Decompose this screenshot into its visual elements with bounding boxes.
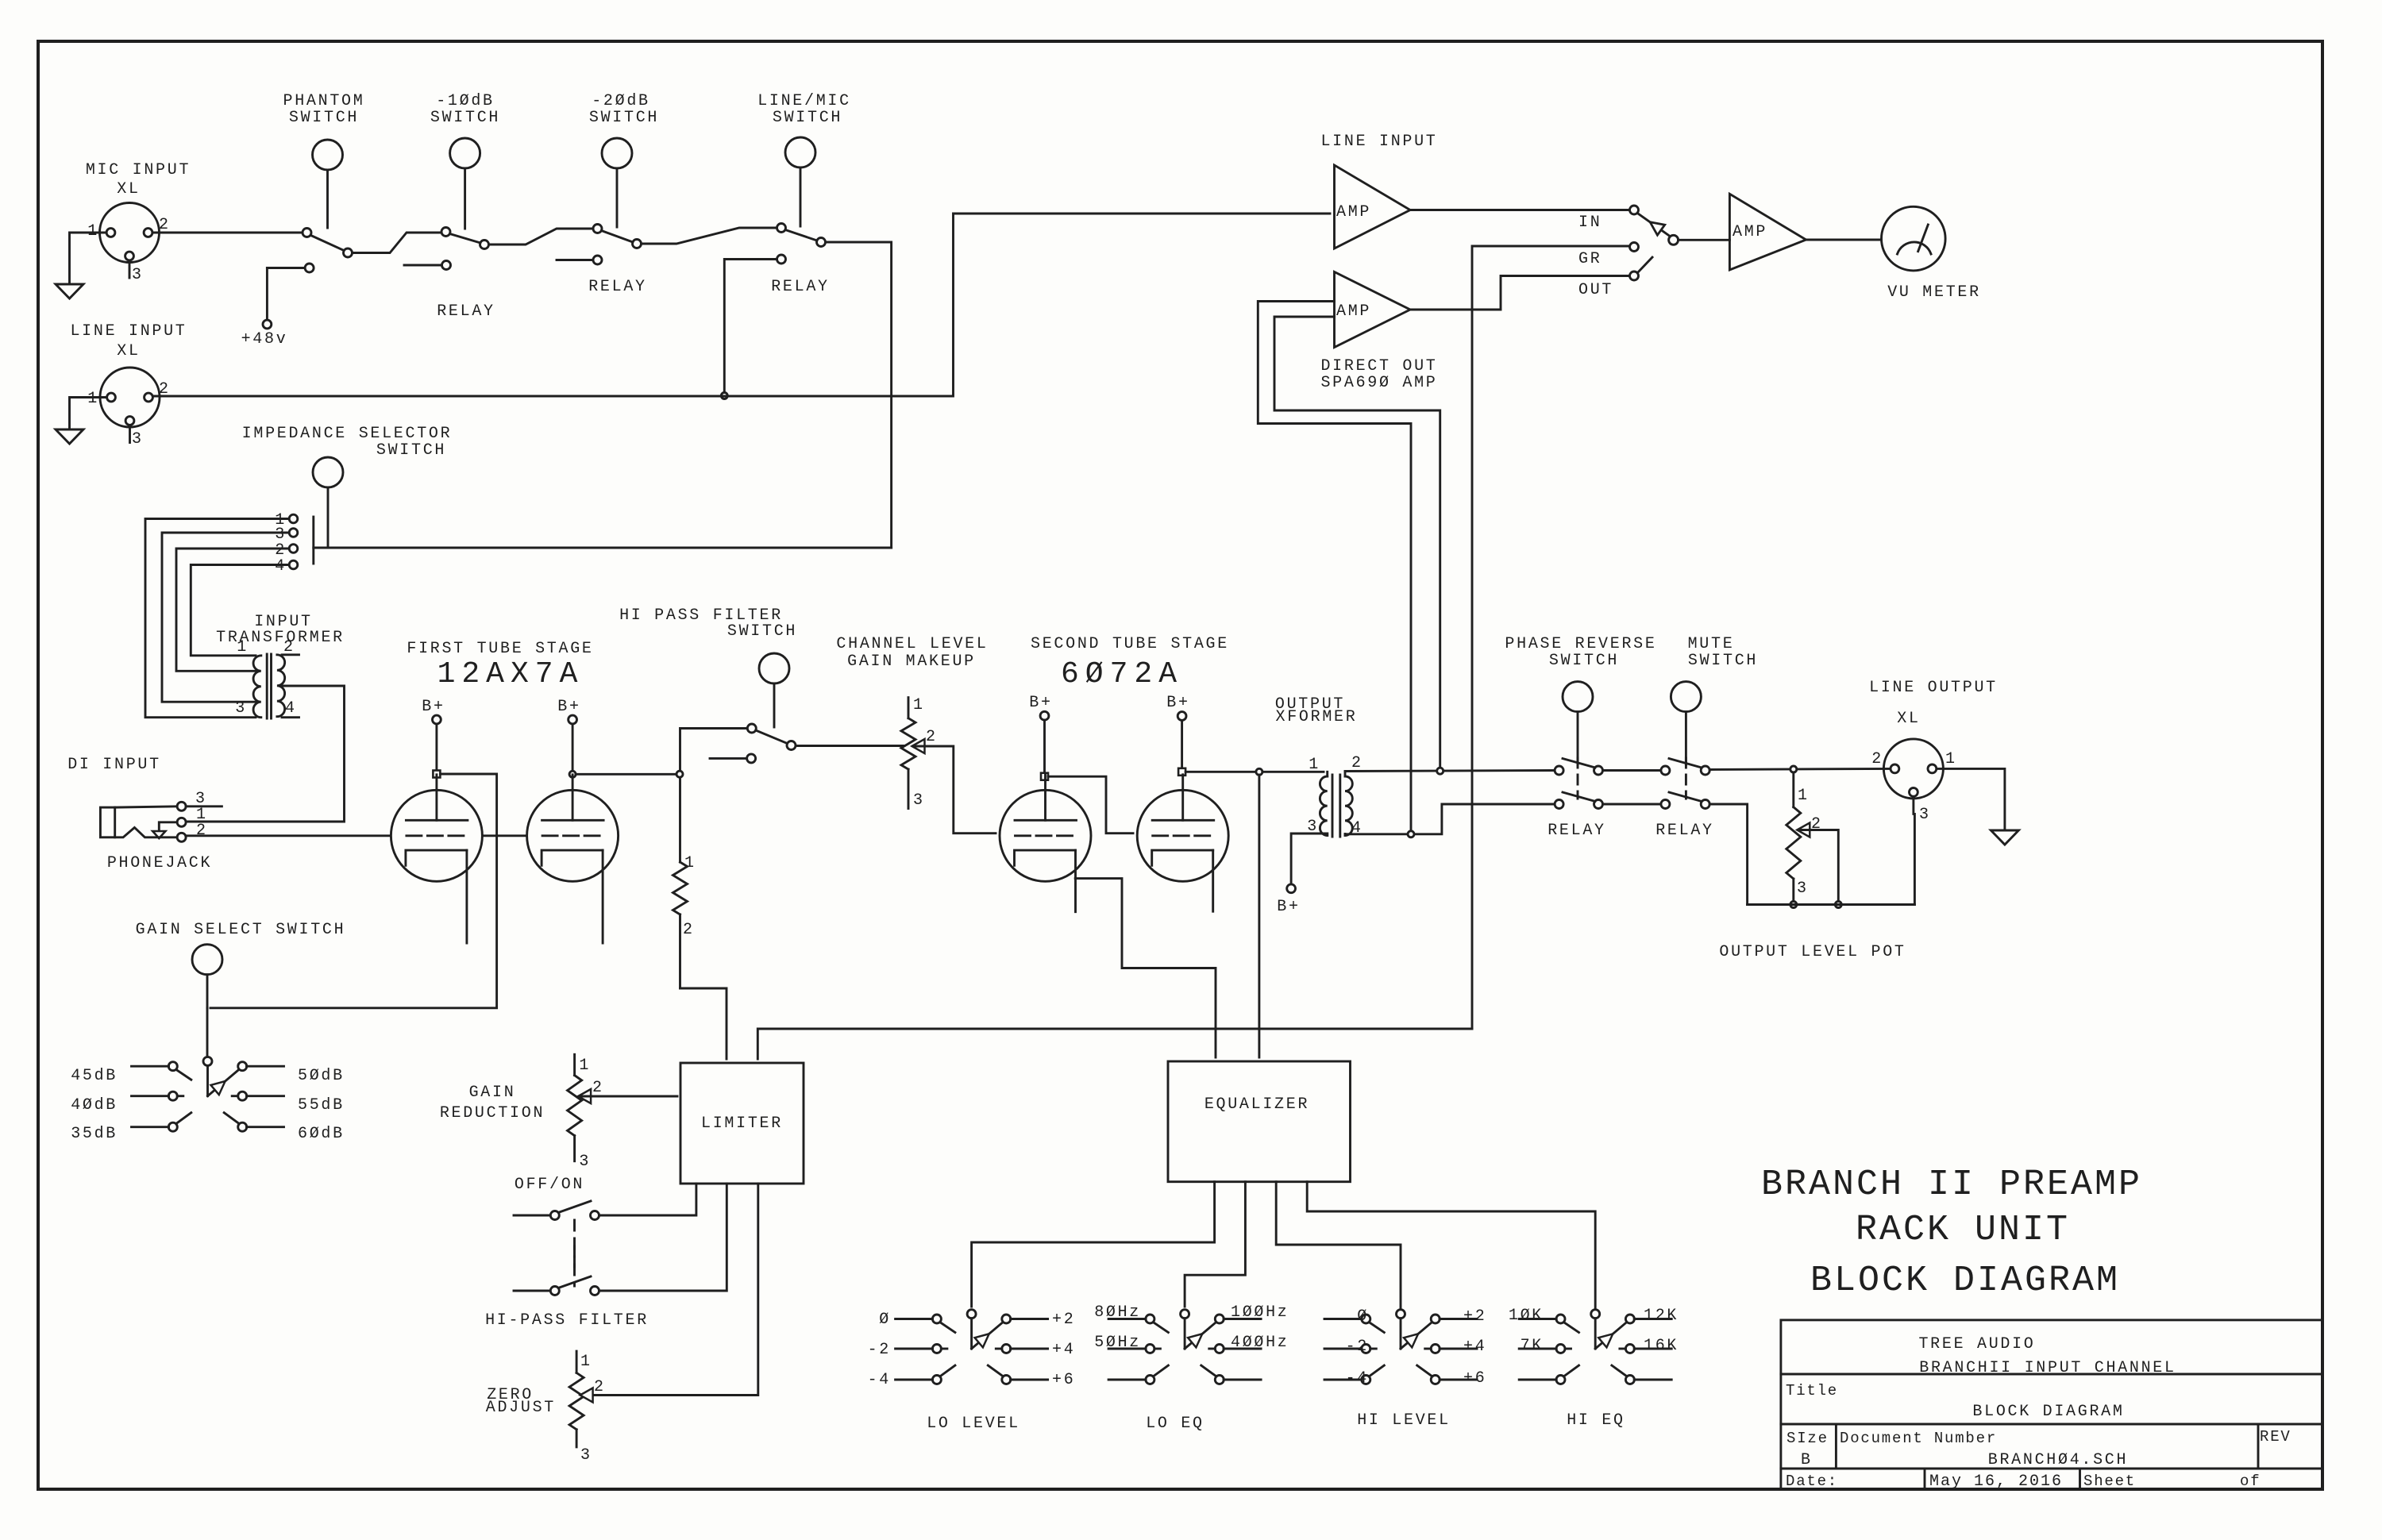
svg-text:VU METER: VU METER xyxy=(1887,283,1981,302)
wire equalizer to LO EQ xyxy=(1185,1182,1245,1307)
switch S5 IMPEDANCE SELECTOR knob xyxy=(313,457,343,487)
svg-text:1: 1 xyxy=(684,854,696,872)
wire tube V3 tap to equalizer xyxy=(1075,879,1216,1057)
svg-text:B+: B+ xyxy=(557,698,580,716)
svg-text:6ØdB: 6ØdB xyxy=(298,1125,345,1143)
svg-text:AMP: AMP xyxy=(1336,203,1371,221)
svg-text:Ø: Ø xyxy=(1357,1307,1369,1326)
wire amp to vu meter xyxy=(1806,239,1882,241)
svg-text:GAIN: GAIN xyxy=(469,1084,516,1102)
title block col date xyxy=(1924,1469,1926,1489)
phase switch bottom pole xyxy=(1555,800,1563,809)
contact +48v feed xyxy=(305,264,314,272)
mute switch link dashes xyxy=(1685,758,1687,799)
svg-text:3: 3 xyxy=(580,1446,592,1465)
svg-text:GAIN MAKEUP: GAIN MAKEUP xyxy=(847,653,976,671)
svg-text:CHANNEL LEVEL: CHANNEL LEVEL xyxy=(836,635,988,653)
svg-text:3: 3 xyxy=(1797,880,1809,898)
title block col sheet xyxy=(2079,1469,2081,1489)
svg-text:REDUCTION: REDUCTION xyxy=(440,1104,545,1122)
svg-text:4: 4 xyxy=(275,557,287,576)
svg-text:XL: XL xyxy=(1897,710,1920,728)
svg-text:Date:: Date: xyxy=(1786,1473,1838,1490)
svg-text:5ØdB: 5ØdB xyxy=(298,1067,345,1085)
wire contact2 to xformer tap xyxy=(176,549,289,671)
svg-text:BLOCK DIAGRAM: BLOCK DIAGRAM xyxy=(1810,1261,2120,1301)
svg-text:1ØØHz: 1ØØHz xyxy=(1231,1303,1289,1322)
svg-text:SWITCH: SWITCH xyxy=(773,109,842,127)
potentiometer R5 zero adjust xyxy=(576,1351,578,1373)
wire secondary tap to DI pin1 xyxy=(186,686,345,822)
title block row line 1 xyxy=(1781,1373,2322,1376)
contact OUT xyxy=(1630,271,1639,280)
svg-text:IN: IN xyxy=(1578,214,1601,232)
transformer T2 core xyxy=(1332,775,1334,837)
wire hi-pass feed xyxy=(680,729,748,863)
svg-text:Ø: Ø xyxy=(879,1311,891,1329)
rotary switch LO LEVEL xyxy=(967,1310,976,1319)
wire -10dB to -20dB switch xyxy=(489,229,594,244)
junction B+ node V3 xyxy=(1041,773,1048,780)
tube V2 12AX7A triode B xyxy=(527,790,619,881)
svg-text:-2ØdB: -2ØdB xyxy=(592,92,650,110)
rotary switch HI EQ xyxy=(1591,1310,1600,1319)
svg-text:12K: 12K xyxy=(1644,1307,1679,1325)
wire line out pin1 to ground xyxy=(1937,768,2005,829)
wire V1 to V2 grid xyxy=(483,834,527,837)
svg-text:RELAY: RELAY xyxy=(588,278,647,296)
junction resistor top xyxy=(676,771,683,777)
svg-text:PHANTOM: PHANTOM xyxy=(283,92,365,110)
svg-text:2: 2 xyxy=(594,1378,606,1396)
wire direct out amp input B xyxy=(1274,317,1440,768)
wire B+ node to gain select loop xyxy=(210,774,497,1008)
wire phantom to -10dB switch xyxy=(353,233,442,253)
svg-text:OUTPUT LEVEL POT: OUTPUT LEVEL POT xyxy=(1719,943,1906,961)
phone jack pin3 xyxy=(177,802,186,810)
svg-text:GAIN SELECT SWITCH: GAIN SELECT SWITCH xyxy=(136,921,346,939)
svg-text:B+: B+ xyxy=(1029,694,1052,712)
svg-text:LINE/MIC: LINE/MIC xyxy=(757,92,851,110)
svg-text:3: 3 xyxy=(132,266,144,284)
svg-text:BRANCHØ4.SCH: BRANCHØ4.SCH xyxy=(1988,1451,2128,1469)
svg-text:3: 3 xyxy=(235,699,247,718)
wire T2 pin2 to phase switch xyxy=(1345,771,1555,772)
wire selector bar to mic chain xyxy=(314,547,892,549)
selector bar xyxy=(312,517,314,564)
svg-text:3: 3 xyxy=(132,430,144,449)
relay contact under LINE/MIC xyxy=(777,255,786,264)
contact GR xyxy=(1630,243,1639,252)
wire T2 pin4 to mute relay xyxy=(1345,833,1408,835)
switch S4 LINE/MIC knob xyxy=(785,137,815,167)
mute switch bottom pole xyxy=(1661,800,1670,809)
svg-text:LINE INPUT: LINE INPUT xyxy=(70,322,187,341)
junction pot wiper bottom xyxy=(1835,902,1841,908)
rotary switch S9 gain select xyxy=(203,1057,212,1065)
svg-text:SECOND TUBE STAGE: SECOND TUBE STAGE xyxy=(1031,635,1229,653)
svg-text:XL: XL xyxy=(117,342,140,360)
wire equalizer to HI LEVEL xyxy=(1276,1182,1401,1310)
terminal B+ tube V4 xyxy=(1178,712,1186,721)
-10dB switch contacts xyxy=(441,228,450,237)
svg-text:1: 1 xyxy=(87,222,99,241)
svg-text:2: 2 xyxy=(1351,754,1363,772)
svg-text:6Ø72A: 6Ø72A xyxy=(1061,657,1183,691)
svg-text:2: 2 xyxy=(926,728,938,746)
wire secondary pin2 stub xyxy=(282,653,299,656)
wire hi pass to channel level pot xyxy=(796,745,904,747)
svg-text:DI INPUT: DI INPUT xyxy=(67,756,161,774)
svg-text:OUT: OUT xyxy=(1578,281,1613,299)
stub at OUT contact xyxy=(1638,257,1652,272)
svg-text:3: 3 xyxy=(1919,806,1931,824)
svg-text:HI-PASS FILTER: HI-PASS FILTER xyxy=(485,1311,649,1330)
svg-text:IMPEDANCE SELECTOR: IMPEDANCE SELECTOR xyxy=(242,425,453,443)
svg-text:B+: B+ xyxy=(1277,898,1300,916)
svg-text:XFORMER: XFORMER xyxy=(1276,708,1358,726)
svg-text:EQUALIZER: EQUALIZER xyxy=(1204,1095,1309,1114)
rotary switch HI LEVEL xyxy=(1397,1310,1405,1319)
svg-text:-4: -4 xyxy=(868,1371,891,1389)
wire phase to mute bottom xyxy=(1603,803,1662,806)
ground line output xyxy=(1991,830,2018,845)
svg-text:SWITCH: SWITCH xyxy=(1688,652,1758,670)
wire selector to meter amp xyxy=(1679,239,1730,241)
svg-text:+4: +4 xyxy=(1463,1338,1486,1356)
svg-text:5ØHz: 5ØHz xyxy=(1094,1334,1141,1352)
wire limiter to zero adjust xyxy=(584,1184,758,1396)
svg-text:-2: -2 xyxy=(1346,1338,1369,1356)
svg-text:OFF/ON: OFF/ON xyxy=(515,1176,584,1194)
svg-text:B+: B+ xyxy=(422,698,445,716)
amplifier U3 meter AMP xyxy=(1729,194,1806,270)
selector blade to IN xyxy=(1638,214,1670,237)
junction B+ node V2 xyxy=(569,771,576,777)
svg-text:35dB: 35dB xyxy=(71,1125,118,1143)
wire B+ node V3 to V4 grid xyxy=(1048,776,1133,833)
phase switch link dashes xyxy=(1577,758,1579,799)
selector blade arrowhead xyxy=(1650,222,1665,235)
off/on dashes xyxy=(573,1220,576,1270)
svg-text:7K: 7K xyxy=(1521,1337,1544,1355)
svg-text:SWITCH: SWITCH xyxy=(289,109,359,127)
svg-text:+48v: +48v xyxy=(241,330,288,348)
wire phase to mute top xyxy=(1603,769,1662,772)
connector J3 phone jack sleeve xyxy=(100,807,114,837)
svg-text:XL: XL xyxy=(117,180,140,198)
svg-text:AMP: AMP xyxy=(1336,302,1371,321)
wire mute out to line output xyxy=(1709,768,1891,769)
svg-text:May 16, 2016: May 16, 2016 xyxy=(1929,1473,2063,1491)
potentiometer R2 channel level xyxy=(908,698,910,718)
svg-text:PHASE REVERSE: PHASE REVERSE xyxy=(1505,635,1656,653)
svg-text:-4: -4 xyxy=(1346,1369,1369,1388)
svg-text:TREE AUDIO: TREE AUDIO xyxy=(1918,1335,2035,1353)
svg-text:LO EQ: LO EQ xyxy=(1146,1415,1204,1433)
transformer T2 secondary coil xyxy=(1344,772,1347,776)
phase switch top pole xyxy=(1555,766,1563,775)
transformer T1 core xyxy=(266,654,268,718)
phone jack pin1 xyxy=(177,818,186,826)
svg-text:MIC INPUT: MIC INPUT xyxy=(86,161,191,179)
svg-text:FIRST TUBE STAGE: FIRST TUBE STAGE xyxy=(407,640,593,658)
svg-text:MUTE: MUTE xyxy=(1688,635,1735,653)
junction line-relay on line input wire xyxy=(721,393,727,399)
svg-text:1: 1 xyxy=(1945,750,1957,768)
wire line out pin3 down xyxy=(1914,814,1916,904)
switch S7 PHASE REVERSE knob xyxy=(1563,682,1593,712)
svg-text:RELAY: RELAY xyxy=(771,278,830,296)
hi pass NC contact xyxy=(747,754,756,763)
transformer T1 secondary coil xyxy=(277,655,285,717)
block EQUALIZER xyxy=(1168,1061,1351,1182)
svg-text:3: 3 xyxy=(579,1153,591,1171)
svg-text:LO LEVEL: LO LEVEL xyxy=(927,1415,1020,1433)
selector contact 4 xyxy=(289,560,298,569)
phone jack pin1 ground xyxy=(159,822,177,830)
wire direct out amp output to OUT contact xyxy=(1410,276,1630,310)
svg-text:8ØHz: 8ØHz xyxy=(1094,1303,1141,1322)
terminal B+ output xformer xyxy=(1287,884,1296,893)
wire junction to equalizer xyxy=(1258,775,1260,1057)
wire line pin1 to ground xyxy=(70,398,107,429)
svg-text:1ØK: 1ØK xyxy=(1509,1307,1544,1325)
svg-text:GR: GR xyxy=(1578,250,1601,268)
svg-text:12AX7A: 12AX7A xyxy=(437,657,584,691)
svg-text:+4: +4 xyxy=(1052,1341,1075,1359)
terminal +48v xyxy=(263,320,272,329)
wire -20dB to LINE/MIC switch xyxy=(642,228,777,244)
phone jack tip spring xyxy=(115,828,177,837)
svg-text:BRANCH II PREAMP: BRANCH II PREAMP xyxy=(1761,1165,2142,1205)
svg-text:3: 3 xyxy=(913,791,925,810)
block LIMITER xyxy=(680,1063,804,1184)
svg-text:1: 1 xyxy=(87,390,99,408)
selector contact 1 xyxy=(289,514,298,523)
svg-text:of: of xyxy=(2240,1473,2261,1490)
wire contact3 to xformer tap xyxy=(162,533,289,702)
hi pass switch contacts xyxy=(747,724,756,733)
wire secondary pin4 stub xyxy=(282,716,299,718)
transformer T1 primary coil xyxy=(253,656,261,718)
switch S9 GAIN SELECT knob xyxy=(192,945,222,975)
junction output pot pin1 xyxy=(1790,766,1797,772)
svg-text:16K: 16K xyxy=(1644,1337,1679,1355)
wire DI pin2 to first tube grid xyxy=(186,834,391,837)
svg-text:+6: +6 xyxy=(1463,1369,1486,1388)
svg-text:Document Number: Document Number xyxy=(1840,1430,1997,1447)
wire resistor to limiter xyxy=(680,988,727,1059)
svg-text:B: B xyxy=(1801,1451,1813,1469)
svg-text:HI LEVEL: HI LEVEL xyxy=(1357,1411,1451,1430)
svg-text:REV: REV xyxy=(2260,1428,2291,1446)
svg-text:SWITCH: SWITCH xyxy=(1549,652,1619,670)
wire limiter to hi-pass row xyxy=(599,1184,727,1291)
svg-text:SWITCH: SWITCH xyxy=(727,622,797,641)
selector contact 2 xyxy=(289,545,298,553)
wire LINE/MIC to impedance selector xyxy=(318,242,892,548)
svg-text:RACK UNIT: RACK UNIT xyxy=(1856,1210,2070,1250)
LINE/MIC switch contacts xyxy=(777,224,786,233)
svg-text:4ØdB: 4ØdB xyxy=(71,1096,118,1115)
svg-text:Title: Title xyxy=(1786,1382,1838,1399)
contact IN xyxy=(1630,206,1639,214)
junction on pin2 line xyxy=(1437,768,1443,774)
mute switch top pole xyxy=(1661,766,1670,775)
connector J4 LINE OUTPUT XL xyxy=(1883,739,1943,799)
phantom switch contacts xyxy=(303,229,311,237)
switch S6 HI PASS FILTER knob xyxy=(759,653,789,683)
svg-text:1: 1 xyxy=(1798,787,1810,805)
amplifier U1 LINE INPUT AMP xyxy=(1335,165,1411,248)
svg-text:-1ØdB: -1ØdB xyxy=(436,92,495,110)
svg-text:ADJUST: ADJUST xyxy=(486,1399,556,1417)
resistor R1 limiter feed xyxy=(673,862,688,914)
junction equalizer feed xyxy=(1256,768,1262,775)
selector common contact xyxy=(1669,235,1679,244)
meter M1 VU METER xyxy=(1882,206,1946,271)
title block row line 3 xyxy=(1781,1468,2322,1470)
svg-text:+6: +6 xyxy=(1052,1371,1075,1389)
relay contact under -10dB xyxy=(442,261,451,270)
potentiometer R4 gain reduction xyxy=(573,1054,576,1075)
svg-text:2: 2 xyxy=(592,1079,604,1097)
title block col size xyxy=(1835,1424,1837,1469)
wire mic pin1 to ground xyxy=(70,233,107,283)
relay contact under -20dB xyxy=(593,256,602,264)
wire output pot bottom bus xyxy=(1748,903,1915,906)
ground line input xyxy=(56,429,83,444)
amplifier U2 DIRECT OUT SPA690 xyxy=(1335,272,1411,348)
svg-text:B+: B+ xyxy=(1166,694,1189,712)
connector J1 MIC INPUT XL xyxy=(100,203,160,263)
wire B+ node V4 to output xformer pin1 xyxy=(1185,771,1324,773)
terminal B+ tube V1 xyxy=(433,715,441,724)
svg-text:TRANSFORMER: TRANSFORMER xyxy=(216,629,345,647)
svg-text:4ØØHz: 4ØØHz xyxy=(1231,1334,1289,1352)
svg-text:1: 1 xyxy=(580,1353,592,1371)
junction pot pin3 bottom xyxy=(1790,902,1797,908)
svg-text:AMP: AMP xyxy=(1733,223,1767,241)
wire B+ node V2 to limiter resistor xyxy=(576,773,676,776)
wire line pin2 to line amp xyxy=(153,214,1331,396)
svg-text:1: 1 xyxy=(579,1057,591,1075)
gain select stem xyxy=(206,1008,209,1057)
wire limiter to off/on switch xyxy=(599,1184,696,1215)
switch S2 -10dB knob xyxy=(450,138,480,168)
wire direct out amp input A xyxy=(1258,302,1411,830)
switch S3 -20dB knob xyxy=(602,138,632,168)
svg-text:PHONEJACK: PHONEJACK xyxy=(107,854,212,872)
connector J2 LINE INPUT XL xyxy=(100,368,160,427)
wire GR sense line xyxy=(1472,246,1630,1029)
terminal B+ tube V3 xyxy=(1040,711,1049,720)
svg-text:RELAY: RELAY xyxy=(437,302,495,321)
junction B+ node V1 xyxy=(433,771,440,778)
ground mic input xyxy=(56,284,83,298)
svg-text:1: 1 xyxy=(237,638,249,656)
svg-text:RELAY: RELAY xyxy=(1548,822,1606,840)
svg-text:SWITCH: SWITCH xyxy=(376,441,446,460)
wire mute NC to output pot bottom xyxy=(1709,804,1747,905)
rotary switch LO EQ xyxy=(1181,1310,1189,1319)
title block row line 2 xyxy=(1781,1423,2322,1426)
svg-text:+2: +2 xyxy=(1463,1307,1486,1326)
wire gain reduction wiper to limiter xyxy=(581,1095,678,1098)
wire line amp out to IN contact xyxy=(1410,209,1630,211)
tube V1 12AX7A triode A xyxy=(391,790,482,881)
switch S1 PHANTOM knob xyxy=(313,140,343,170)
svg-text:4: 4 xyxy=(285,699,297,718)
tube V4 6072A triode B xyxy=(1137,790,1228,881)
svg-text:RELAY: RELAY xyxy=(1655,822,1714,840)
wire GR line into limiter xyxy=(757,1029,1472,1059)
svg-text:-2: -2 xyxy=(868,1341,891,1359)
svg-text:LIMITER: LIMITER xyxy=(701,1115,783,1133)
wire channel pot wiper to tube V3 xyxy=(915,746,996,834)
wire contact4 to xformer pin1 xyxy=(191,565,289,656)
svg-text:SIze: SIze xyxy=(1786,1430,1829,1447)
svg-text:BLOCK DIAGRAM: BLOCK DIAGRAM xyxy=(1972,1403,2124,1421)
svg-text:DIRECT OUT: DIRECT OUT xyxy=(1320,357,1437,375)
svg-text:SPA69Ø AMP: SPA69Ø AMP xyxy=(1320,374,1437,392)
hi-pass dashes xyxy=(573,1246,576,1286)
wire equalizer to LO LEVEL xyxy=(972,1182,1215,1307)
-20dB switch contacts xyxy=(593,225,602,233)
wire T2 pin3 to B+ xyxy=(1291,834,1328,884)
junction B+ node V4 xyxy=(1178,768,1185,776)
wire mic pin2 to phantom switch xyxy=(152,232,303,234)
svg-text:1: 1 xyxy=(1309,756,1320,774)
svg-text:2: 2 xyxy=(196,822,208,840)
junction pin4 direct out feed xyxy=(1408,831,1414,837)
terminal B+ tube V2 xyxy=(569,715,577,724)
wire output pot wiper xyxy=(1800,830,1838,902)
title block frame xyxy=(1781,1320,2322,1489)
phone jack pin2 xyxy=(177,833,186,841)
svg-text:SWITCH: SWITCH xyxy=(589,109,659,127)
svg-text:45dB: 45dB xyxy=(71,1067,118,1085)
switch S11 HI-PASS FILTER xyxy=(514,1290,550,1292)
svg-text:2: 2 xyxy=(683,921,695,939)
title block col rev xyxy=(2257,1424,2260,1469)
wire equalizer to HI EQ xyxy=(1307,1182,1595,1310)
svg-text:2: 2 xyxy=(1871,750,1883,768)
potentiometer R3 output level xyxy=(1792,772,1794,807)
svg-text:LINE OUTPUT: LINE OUTPUT xyxy=(1869,679,1998,697)
tube V3 6072A triode A xyxy=(1000,790,1091,881)
svg-text:SWITCH: SWITCH xyxy=(430,109,500,127)
selector contact 3 xyxy=(289,529,298,537)
svg-text:1: 1 xyxy=(913,696,925,714)
svg-text:Sheet: Sheet xyxy=(2083,1473,2136,1490)
wire contact1 to xformer pin3 xyxy=(145,519,289,718)
svg-text:HI EQ: HI EQ xyxy=(1567,1411,1625,1430)
svg-text:LINE INPUT: LINE INPUT xyxy=(1320,133,1437,151)
switch S10 OFF/ON xyxy=(514,1215,550,1217)
switch S8 MUTE knob xyxy=(1671,682,1701,712)
svg-text:+2: +2 xyxy=(1052,1311,1075,1329)
transformer T2 primary coil xyxy=(1326,772,1328,776)
svg-text:BRANCHII INPUT CHANNEL: BRANCHII INPUT CHANNEL xyxy=(1919,1359,2176,1377)
svg-text:55dB: 55dB xyxy=(298,1096,345,1115)
